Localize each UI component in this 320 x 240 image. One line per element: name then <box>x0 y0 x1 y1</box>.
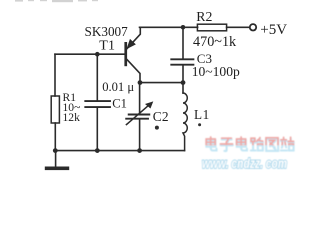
wire C1 branch lower <box>96 108 98 151</box>
svg-text:www. cndzz. com: www. cndzz. com <box>202 156 287 171</box>
capacitor C1 <box>85 101 110 107</box>
resistor R2 <box>197 24 226 31</box>
label C2 asterisk <box>155 126 159 130</box>
wire C2 branch upper <box>139 83 141 114</box>
arrow of C2 <box>126 105 149 125</box>
transistor T1 <box>124 27 140 81</box>
wire node to R2 <box>183 26 198 28</box>
watermark logo <box>202 137 294 171</box>
top cut-off text remnant <box>15 0 98 2</box>
node base-C1 junction <box>95 52 100 57</box>
wire C3 drop from node <box>182 27 184 58</box>
ground <box>55 151 57 167</box>
wire R2 to terminal <box>227 26 250 28</box>
resistor R1 <box>51 96 59 123</box>
watermark line1 blue copy <box>206 138 293 151</box>
wire R1 branch top <box>54 54 56 96</box>
wire base horizontal <box>55 53 124 55</box>
label L1 asterisk <box>198 123 201 126</box>
svg-text:10~100p: 10~100p <box>192 64 240 79</box>
wire C1 branch upper <box>96 54 98 100</box>
svg-text:L1: L1 <box>194 107 210 122</box>
inductor L1 <box>183 93 187 151</box>
wire mid rail <box>140 82 183 84</box>
watermark line1 red fringe copy <box>206 137 293 150</box>
node top rail junction <box>181 25 186 30</box>
wire emitter rail to node <box>140 26 184 28</box>
node mid rail right <box>181 80 186 85</box>
svg-text:T1: T1 <box>99 39 115 54</box>
svg-text:R2: R2 <box>196 9 212 24</box>
wire C2 branch lower <box>139 120 141 151</box>
node C2 bottom <box>137 148 142 153</box>
wire L1 lead top <box>182 83 184 93</box>
node ground junction <box>53 148 58 153</box>
svg-text:SK3007: SK3007 <box>85 24 129 39</box>
wire R1 to ground rail <box>54 123 56 151</box>
capacitor C3 <box>171 59 193 64</box>
terminal +5V circle <box>250 24 256 30</box>
node C1 bottom <box>95 148 100 153</box>
svg-text:C2: C2 <box>153 109 169 124</box>
svg-text:12k: 12k <box>63 111 81 124</box>
node mid rail left <box>138 80 143 85</box>
svg-text:C1: C1 <box>112 96 127 110</box>
svg-text:0.01 μ: 0.01 μ <box>102 80 134 94</box>
capacitor C2 variable <box>126 115 149 119</box>
svg-text:+5V: +5V <box>260 22 287 38</box>
wire C3 to mid rail <box>182 66 184 83</box>
svg-text:470~1k: 470~1k <box>193 34 237 50</box>
wire bottom rail <box>55 150 184 152</box>
